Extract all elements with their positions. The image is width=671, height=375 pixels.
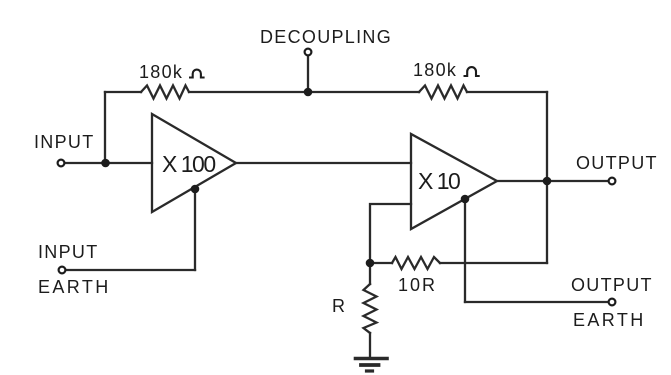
ground symbol xyxy=(356,357,388,361)
node decoupling junction xyxy=(304,88,313,97)
wire feedback bottom horizontal right part xyxy=(440,262,547,264)
terminal INPUT EARTH xyxy=(59,267,66,274)
svg-text:X 100: X 100 xyxy=(162,151,215,177)
wire U1 earth vertical xyxy=(194,190,196,270)
svg-text:X 10: X 10 xyxy=(418,168,460,194)
wire U1 output to U2 input xyxy=(236,162,411,164)
svg-text:EARTH: EARTH xyxy=(38,277,111,297)
wire top-right segment to corner xyxy=(467,91,547,93)
node U2 bottom-edge junction xyxy=(461,195,470,204)
svg-text:OUTPUT: OUTPUT xyxy=(571,275,653,295)
svg-text:180k: 180k xyxy=(139,62,183,82)
wire resistor R to ground xyxy=(369,333,371,357)
terminal OUTPUT xyxy=(609,178,616,185)
resistor R3 10R xyxy=(392,257,440,269)
node input junction xyxy=(101,159,110,168)
terminal OUTPUT EARTH xyxy=(609,299,616,306)
node 10R-R junction xyxy=(366,259,375,268)
svg-text:R: R xyxy=(332,296,346,316)
wire input earth horizontal xyxy=(66,269,195,271)
wire top middle segment xyxy=(189,91,419,93)
node U1 bottom-edge junction xyxy=(191,185,200,194)
wire node down to resistor R xyxy=(369,263,371,284)
wire top-left horizontal segment xyxy=(105,91,141,93)
svg-text:OUTPUT: OUTPUT xyxy=(576,153,658,173)
wire output earth horizontal xyxy=(465,301,608,303)
svg-text:INPUT: INPUT xyxy=(38,242,99,262)
wire U2 earth vertical xyxy=(464,200,466,302)
svg-text:DECOUPLING: DECOUPLING xyxy=(260,27,392,47)
wire left vertical (node to top wire) xyxy=(104,92,106,163)
wire decoupling stem xyxy=(307,56,309,92)
terminal DECOUPLING xyxy=(305,49,312,56)
op-amp U2 X10 triangle xyxy=(411,134,497,229)
svg-text:EARTH: EARTH xyxy=(573,310,646,330)
wire right vertical (top wire down to feedback line) xyxy=(546,92,548,263)
terminal INPUT xyxy=(58,160,65,167)
wire feedback bottom horizontal left part xyxy=(370,262,392,264)
op-amp U1 X100 triangle xyxy=(152,114,236,212)
svg-text:INPUT: INPUT xyxy=(34,132,95,152)
resistor R4 R (to ground) xyxy=(364,284,377,333)
wire U2 output to OUTPUT terminal xyxy=(497,180,609,182)
node output junction xyxy=(543,177,552,186)
resistor R2 180k (right feedback) xyxy=(419,86,467,99)
wire input horizontal xyxy=(65,162,152,164)
resistor R1 180k (left feedback) xyxy=(141,86,189,99)
svg-text:10R: 10R xyxy=(398,275,437,295)
wire node up to U2 lower input xyxy=(370,204,411,263)
svg-text:180k: 180k xyxy=(413,60,457,80)
